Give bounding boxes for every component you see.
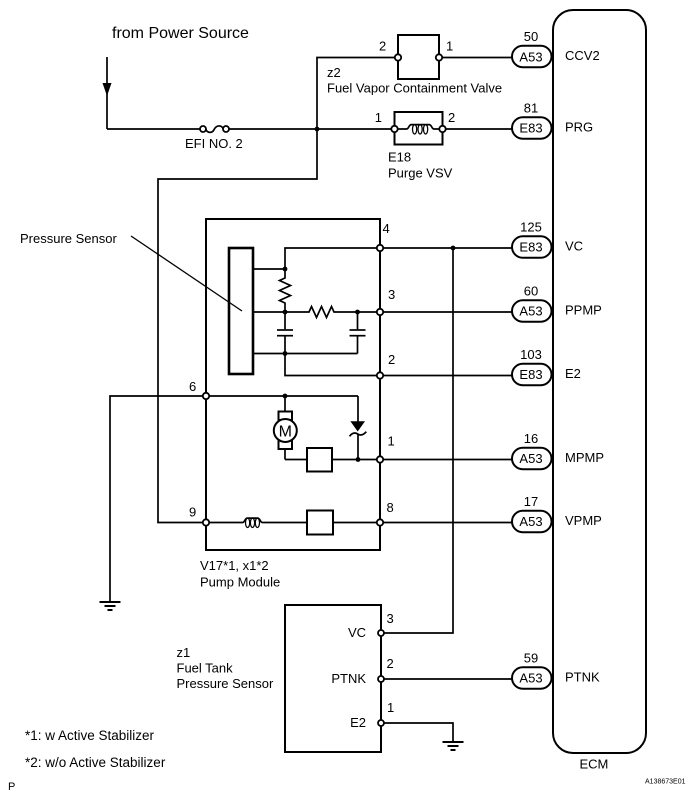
wire: pin 4 to sensor node A: [285, 248, 377, 269]
pump pin 1: [377, 456, 383, 462]
svg-text:2: 2: [379, 39, 386, 54]
wire: pin 9 to coil: [209, 522, 240, 524]
svg-text:PTNK: PTNK: [565, 670, 600, 685]
svg-text:ECM: ECM: [580, 757, 609, 772]
svg-text:E2: E2: [350, 715, 366, 730]
svg-text:*2: w/o Active Stabilizer: *2: w/o Active Stabilizer: [25, 755, 166, 770]
svg-text:A53: A53: [519, 50, 542, 65]
svg-text:81: 81: [524, 101, 538, 116]
svg-text:59: 59: [524, 651, 538, 666]
svg-text:50: 50: [524, 29, 538, 44]
switch box 2: [307, 511, 333, 535]
wire: motor to switch box 1: [285, 459, 307, 461]
svg-text:Purge VSV: Purge VSV: [388, 166, 453, 181]
svg-text:Fuel Vapor Containment Valve: Fuel Vapor Containment Valve: [327, 81, 502, 96]
solenoid E18 Purge VSV: [391, 112, 445, 145]
wire: coil to box 2: [265, 522, 308, 524]
svg-text:VC: VC: [565, 239, 583, 254]
node: VC branch: [451, 246, 456, 251]
wire: fuse to solenoid E18: [229, 128, 391, 130]
connector A53 pin 16 (MPMP): [512, 448, 552, 470]
wire: sensor stub A: [253, 268, 285, 270]
z1 pin 3: [378, 630, 384, 636]
wire: MPMP row: [383, 459, 513, 461]
resistor R2 (horizontal) and wire to pin 3: [285, 307, 377, 318]
connector A53 pin 59 (PTNK): [512, 667, 552, 689]
svg-text:125: 125: [520, 220, 542, 235]
svg-text:*1: w Active Stabilizer: *1: w Active Stabilizer: [25, 728, 155, 743]
svg-text:3: 3: [388, 287, 395, 302]
wire: sensor stub B: [253, 311, 285, 313]
svg-text:8: 8: [387, 500, 394, 515]
text: z2 label: [327, 65, 502, 96]
diode D: [350, 396, 367, 460]
svg-text:6: 6: [189, 379, 196, 394]
wire: E18 to ECM terminal 81: [446, 128, 513, 130]
pump pin 3: [377, 309, 383, 315]
node: diode / pin 1: [356, 457, 361, 462]
svg-text:17: 17: [524, 494, 538, 509]
wire: sensor stub C: [253, 353, 285, 355]
capacitor C1: [277, 312, 293, 354]
svg-text:4: 4: [383, 221, 390, 236]
svg-text:2: 2: [448, 110, 455, 125]
pump pin 9: [203, 519, 209, 525]
text: z1 label: [177, 645, 274, 691]
svg-text:A138673E01: A138673E01: [645, 779, 686, 786]
wire: feed line to fuse: [107, 128, 201, 130]
wire: pin 6 to ground: [110, 396, 203, 602]
wire: z1 E2 to ground: [384, 723, 453, 742]
inductor L1: [240, 518, 265, 527]
svg-text:A53: A53: [519, 514, 542, 529]
z1 pin 2: [378, 676, 384, 682]
pump module box V17: [206, 219, 380, 550]
svg-text:1: 1: [446, 39, 453, 54]
connector A53 pin 17 (VPMP): [512, 511, 552, 533]
text: pump module label: [200, 558, 280, 590]
svg-text:VC: VC: [348, 625, 366, 640]
svg-text:9: 9: [189, 505, 196, 520]
svg-text:2: 2: [387, 656, 394, 671]
node C: [283, 351, 288, 356]
svg-text:from Power Source: from Power Source: [112, 25, 249, 42]
svg-text:16: 16: [524, 431, 538, 446]
svg-text:A53: A53: [519, 671, 542, 686]
wire: z2 to ECM terminal 50: [442, 57, 513, 59]
pump pin 6: [203, 393, 209, 399]
ground G2: [443, 742, 464, 750]
svg-text:Pump Module: Pump Module: [200, 575, 280, 590]
svg-text:A53: A53: [519, 304, 542, 319]
switch box 1: [307, 448, 332, 472]
svg-text:VPMP: VPMP: [565, 513, 602, 528]
svg-text:z1: z1: [177, 645, 191, 660]
node: motor branch: [283, 394, 288, 399]
ground G1: [100, 602, 121, 610]
connector E83 pin 103 (E2): [512, 364, 552, 386]
pump pin 4: [377, 245, 383, 251]
wire: junction up to valve z2: [317, 58, 395, 130]
svg-text:V17*1, x1*2: V17*1, x1*2: [200, 558, 269, 573]
wire: box 2 to pin 8: [333, 522, 377, 524]
pump pin 8: [377, 519, 383, 525]
wire: bottom link to C2: [285, 353, 358, 355]
leader line: [131, 236, 242, 311]
svg-text:E83: E83: [519, 367, 542, 382]
wire: PTNK row: [384, 678, 513, 680]
wire: PPMP row: [383, 311, 513, 313]
junction: main line / z2 branch / pump feed branch: [315, 127, 320, 132]
svg-text:1: 1: [387, 700, 394, 715]
svg-text:E83: E83: [519, 240, 542, 255]
svg-text:PPMP: PPMP: [565, 303, 602, 318]
svg-text:1: 1: [388, 434, 395, 449]
wire: VPMP row: [383, 522, 513, 524]
power source arrow: [103, 57, 112, 129]
svg-text:CCV2: CCV2: [565, 48, 600, 63]
svg-text:PRG: PRG: [565, 120, 593, 135]
svg-text:3: 3: [387, 611, 394, 626]
svg-text:E83: E83: [519, 121, 542, 136]
node B: [283, 310, 288, 315]
wire: box 1 to pin 1: [332, 459, 377, 461]
svg-text:E2: E2: [565, 366, 581, 381]
node: C2 top: [355, 310, 360, 315]
svg-text:1: 1: [375, 110, 382, 125]
wire: node C down to pin 2: [285, 354, 377, 376]
connector A53 pin 60 (PPMP): [512, 300, 552, 322]
sensor z1 box: [285, 605, 381, 752]
ECM body: [553, 10, 646, 753]
valve z2 body: [395, 35, 442, 79]
svg-text:PTNK: PTNK: [331, 671, 366, 686]
svg-text:Fuel Tank: Fuel Tank: [177, 661, 234, 676]
connector A53 pin 50 (CCV2): [512, 46, 552, 68]
svg-text:A53: A53: [519, 451, 542, 466]
fuse EFI NO. 2: [200, 126, 229, 132]
connector E83 pin 125 (VC): [512, 236, 552, 258]
svg-text:z2: z2: [327, 65, 341, 80]
wire: VC node down to z1 pin 3: [384, 248, 453, 633]
z1 pin 1: [378, 720, 384, 726]
node A: [283, 267, 288, 272]
resistor R1 (vertical): [280, 269, 291, 312]
capacitor C2: [350, 312, 366, 354]
svg-text:2: 2: [388, 352, 395, 367]
connector E83 pin 81 (PRG): [512, 117, 552, 139]
svg-text:MPMP: MPMP: [565, 450, 604, 465]
pump pin 2: [377, 372, 383, 378]
wire: E2 row: [383, 375, 513, 377]
motor M: [274, 396, 297, 460]
svg-text:Pressure Sensor: Pressure Sensor: [177, 676, 274, 691]
svg-text:E18: E18: [388, 150, 411, 165]
wire: VC row: [383, 247, 513, 249]
text: E18 label: [388, 150, 453, 181]
wire: junction down and left to pump pin 9: [158, 129, 317, 523]
wire: pin 6 row (inner) to diode column: [209, 395, 358, 397]
svg-text:103: 103: [520, 347, 542, 362]
svg-text:60: 60: [524, 284, 538, 299]
svg-text:EFI NO. 2: EFI NO. 2: [185, 136, 243, 151]
svg-text:M: M: [279, 423, 292, 440]
svg-text:Pressure Sensor: Pressure Sensor: [20, 231, 117, 246]
pressure sensor box: [229, 248, 253, 374]
svg-text:P: P: [8, 781, 15, 793]
